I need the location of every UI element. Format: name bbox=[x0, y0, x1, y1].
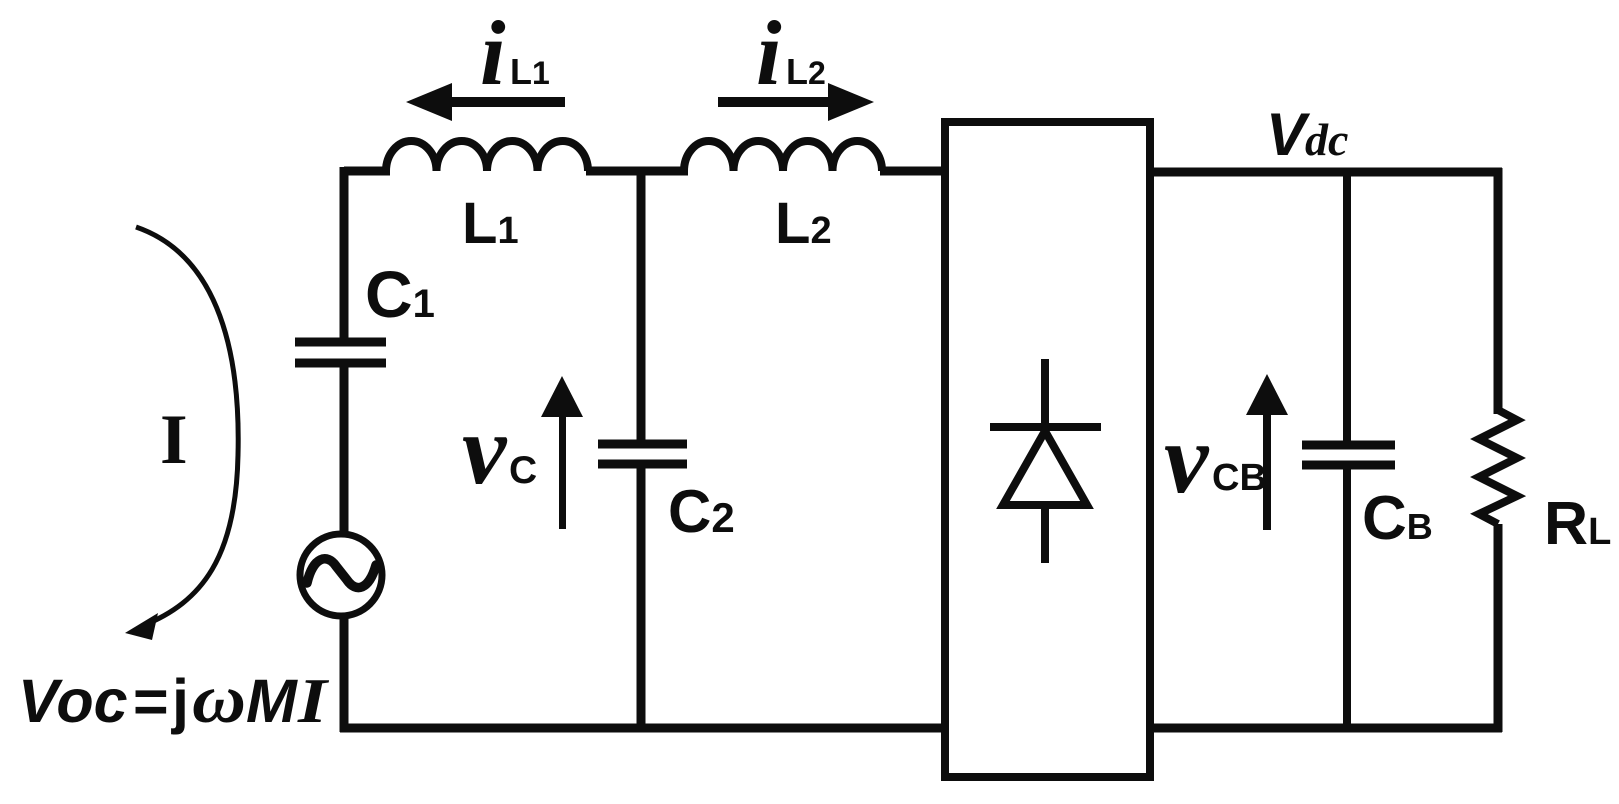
wire: left vertical segment, top corner down to C1 bbox=[340, 167, 349, 340]
svg-text:v: v bbox=[462, 394, 508, 505]
current arrow i_L1 (pointing left) bbox=[406, 83, 565, 121]
wire: top segment from L2 to rectifier block bbox=[880, 167, 945, 176]
svg-text:L1: L1 bbox=[510, 51, 550, 92]
diode D1: cathode bar bbox=[990, 423, 1101, 431]
AC source V_oc bbox=[300, 534, 382, 616]
svg-text:I: I bbox=[297, 665, 330, 736]
svg-text:Voc: Voc bbox=[18, 667, 128, 735]
voltage arrow v_C (pointing up) bbox=[541, 376, 583, 529]
wire: top-left horizontal segment from left branch to L1 bbox=[344, 167, 390, 176]
wire: C2 to bottom wire bbox=[637, 464, 646, 732]
svg-text:CB: CB bbox=[1212, 457, 1267, 499]
AC source sine symbol bbox=[307, 559, 376, 588]
svg-text:L2: L2 bbox=[786, 51, 826, 92]
wire: bottom horizontal segment (right side) bbox=[1146, 724, 1502, 733]
wire: right vertical segment from V_dc corner to resistor bbox=[1494, 168, 1503, 414]
svg-text:i: i bbox=[480, 2, 506, 104]
svg-text:j: j bbox=[171, 667, 189, 735]
diode D1: triangle bbox=[1003, 431, 1087, 505]
wire: capacitor CB branch lower segment bbox=[1343, 465, 1351, 728]
wire: bottom horizontal segment (left side) bbox=[340, 724, 949, 733]
wire: resistor to bottom right corner bbox=[1494, 524, 1503, 732]
capacitor C2 bbox=[598, 444, 687, 464]
diode D1: anode lead bbox=[1041, 359, 1049, 431]
wire: left vertical segment, AC source to bottom wire bbox=[340, 615, 349, 732]
wire: top horizontal segment from rectifier to right corner (node V_dc) bbox=[1150, 168, 1502, 177]
svg-text:v: v bbox=[1164, 403, 1210, 514]
svg-text:M: M bbox=[246, 667, 298, 735]
svg-text:I: I bbox=[160, 401, 188, 479]
capacitor C1 bbox=[295, 342, 386, 363]
inductor L1 bbox=[386, 141, 588, 171]
svg-text:dc: dc bbox=[1305, 114, 1348, 165]
svg-text:=: = bbox=[133, 667, 169, 735]
induced current loop arc I bbox=[136, 227, 238, 626]
wire: top segment between L1 and L2 (through node) bbox=[586, 167, 688, 176]
current arrow i_L2 (pointing right) bbox=[718, 83, 874, 121]
wire: capacitor CB branch upper segment bbox=[1343, 172, 1351, 442]
svg-text:i: i bbox=[756, 2, 782, 104]
voltage arrow v_CB (pointing up) bbox=[1246, 374, 1288, 530]
svg-text:ω: ω bbox=[192, 661, 246, 738]
diode D1: cathode lead bbox=[1041, 505, 1049, 563]
capacitor CB bbox=[1302, 445, 1395, 465]
node: junction of L1, L2 and C2 bbox=[637, 171, 646, 441]
inductor L2 bbox=[684, 141, 882, 171]
resistor RL zigzag bbox=[1479, 410, 1517, 524]
wire: left vertical segment, C1 to AC source bbox=[340, 363, 349, 536]
rectifier block U1 bbox=[945, 122, 1150, 777]
svg-text:C: C bbox=[509, 449, 537, 492]
